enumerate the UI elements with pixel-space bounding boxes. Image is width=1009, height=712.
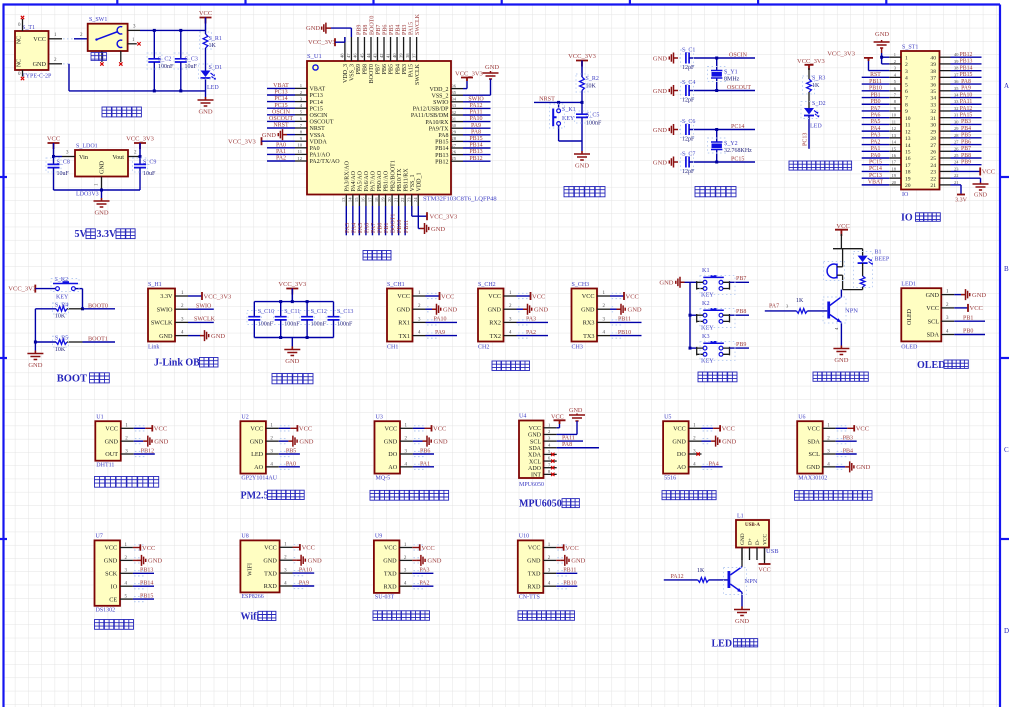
svg-text:VCC: VCC [299, 426, 312, 433]
sheet border top [3, 3, 1001, 5]
U1 pin 34 SWIO [451, 101, 463, 103]
svg-text:PB14: PB14 [469, 143, 482, 149]
U4 pin 8 INT [544, 473, 557, 475]
svg-text:Vout: Vout [112, 154, 124, 161]
U1 pin 3 OUT [121, 453, 134, 455]
svg-text:DS1302: DS1302 [96, 608, 116, 614]
svg-text:PC13: PC13 [274, 90, 287, 96]
module U10 CN-TTS [518, 540, 544, 593]
net label PB6 [413, 453, 434, 455]
svg-text:PB1: PB1 [963, 315, 973, 321]
svg-text:VCC_3V3: VCC_3V3 [308, 39, 336, 46]
svg-text:PA6/AO: PA6/AO [364, 170, 370, 191]
svg-text:PB8: PB8 [363, 64, 369, 74]
wire GND down [63, 63, 69, 65]
power VCC_3V3 jlink [188, 295, 202, 297]
S_CH3 pin 3 RX3 [597, 321, 610, 323]
ST1 pin 26 [940, 150, 951, 152]
svg-text:21: 21 [954, 180, 958, 185]
ground GND alarm [833, 346, 849, 355]
svg-text:31: 31 [930, 116, 936, 122]
zone tick [629, 0, 631, 5]
svg-text:GND: GND [250, 438, 264, 445]
svg-text:12: 12 [905, 129, 911, 135]
svg-text:RXD: RXD [384, 583, 398, 590]
svg-text:GND: GND [431, 226, 445, 233]
svg-text:PB7: PB7 [961, 146, 971, 152]
svg-text:PA2: PA2 [871, 139, 881, 145]
net label PB1 [954, 320, 985, 322]
net label PB11 [556, 572, 577, 574]
title 晶振电路 [695, 187, 736, 197]
U1 pin 36 VDD_2 [451, 88, 463, 90]
svg-text:2: 2 [894, 59, 896, 64]
S_CH1 pin 4 TX1 [413, 335, 426, 337]
svg-text:29: 29 [451, 130, 456, 135]
U1 pin 45 PB8 [363, 37, 365, 61]
svg-text:OLED: OLED [907, 308, 913, 325]
switch S_SW1 [88, 24, 128, 51]
ST1 pin 32 [940, 110, 951, 112]
svg-text:PB5: PB5 [286, 448, 296, 454]
svg-text:PB7: PB7 [736, 276, 746, 282]
ground LDO [101, 190, 103, 198]
svg-text:VCC_3V3: VCC_3V3 [827, 51, 855, 58]
svg-text:S_D1: S_D1 [209, 65, 223, 71]
U9 pin 2 GND [399, 559, 412, 561]
U1 pin 42 PB6 [383, 37, 385, 61]
net label PB10 [610, 335, 642, 337]
ground GND U6 [845, 461, 854, 472]
svg-text:PA7: PA7 [371, 223, 377, 233]
net label PA2 [412, 585, 433, 587]
svg-text:GND: GND [263, 557, 277, 564]
U1 pin 33 PA12/USB/DP [451, 107, 463, 109]
U1 pin 25 PB12 [451, 160, 463, 162]
svg-text:VCC_3V3: VCC_3V3 [204, 293, 232, 300]
U4 pin 1 VCC [544, 427, 557, 429]
ground GND U1 [143, 436, 152, 447]
svg-text:PB15: PB15 [960, 72, 973, 78]
U6 pin 3 SCL [823, 453, 836, 455]
svg-text:B: B [1004, 265, 1009, 273]
svg-text:100nF: 100nF [586, 121, 602, 127]
power port VCC U8 [293, 546, 300, 548]
svg-text:GP2Y1014AU: GP2Y1014AU [241, 475, 277, 481]
svg-text:MPU6050: MPU6050 [519, 482, 544, 488]
svg-text:U10: U10 [519, 534, 529, 540]
svg-text:VCC: VCC [421, 545, 434, 552]
svg-text:PB9: PB9 [356, 64, 362, 74]
svg-text:GND: GND [534, 307, 548, 314]
svg-text:GND: GND [722, 438, 736, 445]
svg-text:KEY: KEY [701, 325, 714, 332]
U1 pin 6 OSCOUT [295, 120, 307, 122]
power port VCC OLED [967, 304, 969, 312]
transistor Q2 NPN [728, 571, 731, 588]
ground GND S_C6 [669, 124, 678, 135]
zone tick right [1000, 538, 1009, 540]
capacitor S_C10 [253, 302, 255, 317]
svg-text:CH3: CH3 [572, 345, 583, 351]
ST1 pin 25 [940, 157, 951, 159]
wire T1 to SW1 [63, 38, 74, 40]
svg-text:PA15: PA15 [408, 64, 414, 77]
svg-text:PA5: PA5 [358, 223, 364, 233]
svg-text:37: 37 [930, 76, 936, 82]
U1 pin 47 VSS_3 [350, 37, 352, 61]
svg-text:KEY: KEY [701, 292, 714, 299]
svg-text:VCC: VCC [582, 293, 595, 300]
power 3.3V pin21 [951, 184, 962, 186]
U1 pin 5 OSCIN [295, 114, 307, 116]
svg-text:GND: GND [33, 61, 47, 68]
svg-text:GND: GND [735, 618, 749, 625]
net label PA3 [517, 321, 549, 323]
svg-text:PB10/TX: PB10/TX [397, 168, 403, 192]
svg-text:PA10: PA10 [960, 92, 973, 98]
ST1 pin 30 [940, 123, 951, 125]
ST1 pin 27 [940, 144, 951, 146]
svg-text:1K: 1K [697, 568, 705, 574]
svg-text:PA1/AO: PA1/AO [310, 153, 331, 159]
power port VCC S_CH1 [426, 295, 440, 297]
power port VCC S_CH2 [517, 295, 531, 297]
svg-text:GND: GND [659, 280, 673, 287]
net label PA1 [413, 466, 434, 468]
LDO pin1 [101, 177, 103, 191]
zone tick right [1000, 357, 1009, 359]
U7 pin 2 GND [120, 559, 133, 561]
wire VCC top run [140, 29, 206, 31]
ST1 pin 28 [940, 137, 951, 139]
S_CH2 pin 1 VCC [504, 295, 517, 297]
svg-text:VCC: VCC [105, 426, 118, 433]
svg-text:PA5/AO: PA5/AO [358, 170, 364, 191]
svg-text:PB5: PB5 [961, 133, 971, 139]
svg-text:VCC_3V3: VCC_3V3 [126, 136, 154, 143]
U6 pin 1 VCC [823, 427, 836, 429]
svg-text:S_CH1: S_CH1 [387, 282, 405, 288]
svg-text:NRST: NRST [539, 95, 555, 102]
H1 pin 4 GND [175, 335, 188, 337]
svg-text:S_R1: S_R1 [209, 36, 222, 42]
svg-text:PA12: PA12 [671, 574, 684, 580]
U1 pin 27 PB14 [451, 147, 463, 149]
ground GND S_C1 [669, 53, 678, 64]
ST1 pin 8 [889, 103, 901, 105]
U1 pin 20 PB2/BOOT1 [391, 195, 393, 207]
svg-text:PB0/AO: PB0/AO [377, 170, 383, 191]
ST1 pin 11 [889, 123, 901, 125]
svg-text:MPU6050: MPU6050 [519, 499, 562, 510]
svg-text:LED: LED [810, 124, 822, 130]
svg-text:TX3: TX3 [583, 333, 594, 340]
U1 pin 1 VBAT [295, 87, 307, 89]
svg-text:USB: USB [766, 548, 779, 555]
key rail [689, 282, 691, 348]
resistor alarm [862, 263, 864, 276]
svg-text:S_Y2: S_Y2 [724, 141, 738, 147]
svg-text:LED: LED [207, 85, 219, 91]
title 滤波电路 [272, 374, 313, 384]
svg-text:GND: GND [653, 55, 667, 62]
svg-text:PB15: PB15 [469, 136, 482, 142]
S_CH3 pin 2 GND [597, 308, 610, 310]
svg-text:GND: GND [740, 533, 746, 545]
svg-text:PB8: PB8 [961, 153, 971, 159]
zone tick right [1000, 176, 1009, 178]
svg-text:GND: GND [581, 306, 595, 313]
svg-text:PB4: PB4 [961, 126, 971, 132]
svg-text:AO: AO [254, 464, 263, 471]
svg-text:LED1: LED1 [901, 282, 916, 288]
title 声光报警电路 [813, 372, 868, 381]
net label PB14 [133, 585, 154, 587]
svg-text:PA10/RX: PA10/RX [425, 120, 449, 126]
svg-text:43: 43 [372, 53, 377, 58]
svg-text:10uF: 10uF [57, 171, 70, 177]
svg-text:11: 11 [298, 149, 303, 154]
power port VCC U6 [836, 427, 848, 429]
net label PB3 [836, 440, 857, 442]
svg-text:PB8: PB8 [363, 25, 369, 35]
U1 pin 8 VSSA [295, 134, 307, 136]
svg-text:20: 20 [387, 197, 392, 202]
power VCC pin23 [951, 170, 981, 172]
U1 pin 46 PB9 [357, 37, 359, 61]
ST1 pin 36 [940, 83, 951, 85]
svg-text:PA11/USB/DM: PA11/USB/DM [411, 113, 449, 119]
svg-text:S_C5: S_C5 [586, 113, 599, 119]
svg-text:S_SW1: S_SW1 [89, 17, 107, 23]
svg-text:SDA: SDA [808, 438, 821, 445]
svg-text:U2: U2 [241, 414, 248, 420]
svg-text:PA6: PA6 [871, 112, 881, 118]
svg-text:S_C9: S_C9 [143, 160, 156, 166]
U10 pin 4 RXD [543, 585, 556, 587]
svg-text:VSS_3: VSS_3 [350, 64, 356, 81]
top node wire [833, 248, 863, 250]
emitter wire [840, 323, 842, 346]
svg-text:GND: GND [653, 88, 667, 95]
svg-text:21: 21 [393, 197, 398, 202]
svg-text:VDD_2: VDD_2 [430, 87, 449, 93]
svg-text:GND: GND [94, 210, 108, 217]
svg-text:VCC: VCC [807, 426, 820, 433]
svg-text:PA12: PA12 [469, 103, 482, 109]
ST1 pin 10 [889, 117, 901, 119]
svg-text:PA0: PA0 [276, 142, 286, 148]
svg-text:PB0: PB0 [378, 223, 384, 233]
ST1 pin 1 [889, 56, 901, 58]
svg-text:PA10: PA10 [299, 568, 312, 574]
title 程序运行指示灯 [789, 161, 852, 170]
svg-text:SWIO: SWIO [468, 96, 484, 102]
U1 pin 3 PC14 [295, 101, 307, 103]
ST1 pin 34 [940, 97, 951, 99]
svg-text:23: 23 [407, 197, 412, 202]
svg-text:GND: GND [528, 433, 542, 439]
svg-text:GND: GND [926, 292, 940, 299]
ground to VSS_2 [483, 71, 499, 79]
sheet border right [999, 5, 1001, 708]
svg-text:GND: GND [105, 438, 119, 445]
U5 pin 2 GND [689, 440, 702, 442]
svg-text:10: 10 [297, 143, 302, 148]
U1 pin 26 PB13 [451, 154, 463, 156]
net label PB4 [836, 453, 857, 455]
capacitor S_C5 [581, 102, 583, 114]
ST1 pin 21 [940, 184, 951, 186]
bottom node [843, 289, 863, 291]
svg-text:PB3: PB3 [961, 119, 971, 125]
capacitor S_C9 [139, 157, 141, 165]
title 可燃气体检测模块 [370, 490, 449, 500]
svg-text:38: 38 [405, 53, 410, 58]
net label PA10 [426, 321, 458, 323]
svg-text:40: 40 [392, 53, 397, 58]
svg-text:GND: GND [154, 438, 168, 445]
ground filter [291, 338, 293, 347]
svg-text:GND: GND [569, 407, 583, 414]
svg-text:GND: GND [834, 357, 848, 364]
svg-text:31: 31 [954, 113, 958, 118]
svg-text:41: 41 [385, 53, 390, 58]
zone tick left [0, 357, 7, 359]
svg-text:SCL: SCL [928, 318, 940, 325]
S_CH2 pin 3 RX2 [504, 321, 517, 323]
svg-text:RST: RST [870, 72, 881, 78]
net label PB13 [133, 572, 154, 574]
ground pin22 [951, 177, 981, 179]
svg-text:14: 14 [905, 143, 911, 149]
svg-text:17: 17 [905, 163, 911, 169]
svg-text:BOOT0: BOOT0 [369, 64, 375, 83]
svg-text:VBAT: VBAT [868, 180, 884, 186]
U8 pin 3 TXD [280, 572, 293, 574]
svg-text:GND: GND [28, 362, 42, 369]
svg-text:VCC_3V3: VCC_3V3 [8, 286, 36, 293]
svg-text:SWCLK: SWCLK [415, 13, 421, 35]
connector S_ST1 [901, 51, 940, 190]
ST1 pin 14 [889, 144, 901, 146]
U6 pin 4 GND [823, 466, 836, 468]
svg-text:U9: U9 [375, 534, 382, 540]
svg-text:VCC: VCC [626, 293, 639, 300]
svg-text:SWCLK: SWCLK [151, 320, 173, 327]
SW1 contacts [117, 27, 122, 34]
svg-text:PA9/TX: PA9/TX [429, 126, 449, 132]
svg-text:PB6: PB6 [420, 448, 430, 454]
svg-text:SWIO: SWIO [196, 303, 212, 309]
svg-text:SWCLK: SWCLK [194, 317, 216, 323]
svg-text:U1: U1 [96, 414, 103, 420]
ground jlink [188, 335, 200, 337]
svg-text:24: 24 [930, 163, 936, 169]
svg-text:PA3/RX/AO: PA3/RX/AO [345, 160, 351, 191]
svg-text:DO: DO [677, 451, 686, 458]
svg-text:GND: GND [211, 333, 225, 340]
svg-text:NC: NC [17, 36, 23, 44]
svg-text:GND: GND [875, 31, 889, 38]
svg-text:PB4: PB4 [395, 64, 401, 74]
svg-text:TYPE-C-2P: TYPE-C-2P [22, 74, 52, 80]
U1 pin 13 PA3/RX/AO [345, 195, 347, 207]
ground GND reset [574, 151, 590, 160]
svg-text:18: 18 [374, 197, 379, 202]
U1 pin 15 PA5/AO [358, 195, 360, 207]
svg-text:1: 1 [905, 55, 908, 61]
svg-text:PM2.5: PM2.5 [241, 490, 269, 501]
resistor S_R3 [807, 79, 812, 92]
LED1 pin 4 SDA [941, 334, 954, 336]
U2 pin 3 LED [266, 453, 279, 455]
svg-text:15: 15 [354, 197, 359, 202]
buzzer B1 [827, 264, 837, 278]
ground GND OLED [961, 289, 970, 300]
svg-text:IO: IO [901, 213, 913, 224]
U1 pin 48 VDD_3 [344, 37, 346, 61]
svg-text:39: 39 [930, 62, 936, 68]
svg-text:TX1: TX1 [399, 333, 410, 340]
svg-text:CN-TTS: CN-TTS [519, 595, 540, 601]
svg-text:16: 16 [361, 197, 366, 202]
svg-text:PA0: PA0 [871, 153, 881, 159]
U7 pin 5 CE [120, 598, 133, 600]
svg-text:MAX30102: MAX30102 [798, 475, 827, 481]
svg-text:2: 2 [905, 62, 908, 68]
svg-text:PA10: PA10 [469, 116, 482, 122]
svg-text:PA8: PA8 [961, 79, 971, 85]
U9 pin 4 RXD [399, 585, 412, 587]
svg-text:18: 18 [905, 170, 911, 176]
svg-text:20: 20 [905, 183, 911, 189]
power port VCC U10 [556, 547, 563, 549]
svg-text:VCC_3V3: VCC_3V3 [430, 214, 458, 221]
title 语音播报模块 [518, 611, 575, 621]
svg-text:K3: K3 [702, 333, 710, 340]
bottom wire [54, 189, 141, 191]
wire GND bottom run [69, 90, 206, 92]
svg-text:GND: GND [972, 292, 986, 299]
svg-text:S_C8: S_C8 [57, 160, 70, 166]
U7 pin 1 VCC [120, 547, 133, 549]
SW1 pin3 [128, 29, 140, 31]
svg-text:PA3: PA3 [419, 568, 429, 574]
ST1 pin 38 [940, 70, 951, 72]
svg-text:IO: IO [902, 192, 909, 198]
svg-text:VCC_3V3: VCC_3V3 [228, 139, 256, 146]
svg-text:NRST: NRST [310, 126, 326, 132]
svg-text:5: 5 [905, 82, 908, 88]
svg-text:GND: GND [575, 163, 589, 170]
svg-text:10K: 10K [55, 314, 66, 320]
module U2 GP2Y1014AU [240, 421, 266, 473]
U3 pin 2 GND [400, 440, 413, 442]
SW1 pin1 [128, 43, 137, 45]
U1 pin 28 PB15 [451, 140, 463, 142]
power port VCC ST1 [979, 167, 981, 175]
T1 NC pin bottom [22, 70, 24, 77]
title 心率血氧检测模块 [795, 491, 873, 501]
ground GND U5 [711, 436, 720, 447]
net label SWCLK [188, 321, 214, 323]
svg-text:PB3: PB3 [402, 25, 408, 35]
svg-text:PB11: PB11 [563, 568, 576, 574]
ground GND S_C7 [669, 157, 678, 168]
power port VCC U7 [133, 547, 140, 549]
